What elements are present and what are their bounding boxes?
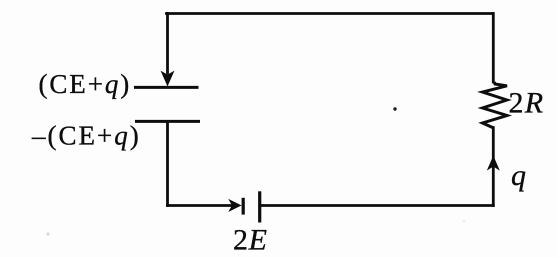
resistor 2R zigzag xyxy=(483,82,508,128)
faint scan speck lower-right xyxy=(463,220,466,223)
battery 2E short (negative) plate xyxy=(242,198,245,215)
arrowhead pointing down onto capacitor top plate xyxy=(162,72,174,85)
wire top horizontal xyxy=(167,12,494,15)
wire left vertical lower (capacitor bottom plate to bottom wire) xyxy=(166,122,169,206)
wire bottom right segment (battery to right) xyxy=(260,204,493,207)
svg-text:q: q xyxy=(511,159,526,192)
capacitor bottom plate, charge -(CE+q) xyxy=(135,120,200,123)
svg-text:2R: 2R xyxy=(509,87,545,120)
capacitor top plate, charge (CE+q) xyxy=(134,86,199,89)
current arrowhead q pointing up on right wire xyxy=(488,157,499,170)
stray printed dot xyxy=(393,107,396,110)
svg-text:(CE+q): (CE+q) xyxy=(39,69,132,99)
svg-text:2E: 2E xyxy=(233,224,268,257)
svg-text:–(CE+q): –(CE+q) xyxy=(31,120,141,150)
battery 2E long (positive) plate xyxy=(258,191,261,222)
wire bottom left segment (to battery) xyxy=(168,204,232,207)
faint scan speck lower-left xyxy=(46,232,49,235)
wire right vertical lower (bottom wire to resistor) xyxy=(492,128,495,206)
wire left vertical upper (top wire to capacitor arrow) xyxy=(166,14,169,74)
wire right vertical upper (top wire to resistor) xyxy=(492,14,495,83)
current arrowhead on bottom wire pointing right into battery xyxy=(230,200,241,211)
